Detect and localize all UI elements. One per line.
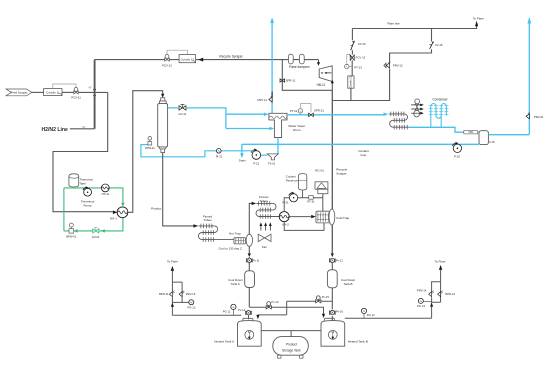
control valve Pv-13 — [266, 300, 279, 309]
wire recycle from dampers to Coriolis 12 — [196, 59, 319, 61]
svg-text:PCV-11: PCV-11 — [71, 95, 81, 99]
flow arrow into drum leg — [270, 127, 275, 131]
wire manifold L2 with Pv-13 — [249, 307, 323, 314]
svg-text:RT-31: RT-31 — [307, 200, 315, 204]
relief valve PRV-11 — [271, 92, 273, 103]
svg-text:P-22: P-22 — [454, 154, 460, 158]
vessel Water Vapor Drum — [269, 113, 305, 137]
wire hot trap riser to finned tubes upper — [249, 203, 251, 234]
svg-text:Feed Syngas: Feed Syngas — [11, 91, 28, 95]
relief valve PRV-12 — [384, 61, 403, 68]
flow arrow into upper finned tubes — [252, 202, 257, 205]
svg-text:Hot Trap: Hot Trap — [229, 231, 241, 235]
wire drum boot condensate — [277, 138, 279, 154]
wire HB-11 suction from recycle riser — [331, 82, 333, 91]
svg-text:Heated Tank A: Heated Tank A — [214, 340, 235, 344]
flow arrow into heated tank A neck — [256, 315, 259, 319]
svg-text:PRV-12: PRV-12 — [393, 64, 403, 68]
relief valve BPR-11 — [159, 291, 175, 297]
wire main riser x94.6 recycle down to H2/N2 — [94, 60, 96, 129]
flow meter Coriolis 13 — [348, 75, 354, 88]
flow arrow into cold trap — [311, 215, 316, 218]
svg-text:PG 14: PG 14 — [417, 304, 425, 308]
svg-text:Flare line: Flare line — [387, 22, 400, 26]
wire GV-11 to drum branches — [186, 108, 226, 129]
flow arrow into finned tubes — [193, 224, 198, 227]
svg-text:Tubes: Tubes — [260, 199, 269, 203]
svg-text:CV-15: CV-15 — [358, 42, 366, 46]
wire manifold L3 to heated tank A — [258, 314, 287, 316]
node Feed Syngas inlet banner — [6, 89, 32, 96]
wire Coriolis 11 to PCV-11 — [62, 91, 74, 93]
wire right flare riser — [432, 270, 441, 318]
svg-text:PRV 11: PRV 11 — [257, 98, 267, 102]
wire feed descent to therminol mixer loop — [53, 92, 113, 211]
vent riser right — [528, 23, 530, 135]
compressor RC-01 — [315, 182, 328, 194]
ball valve Pv-16 — [329, 310, 343, 315]
svg-text:To Flare: To Flare — [167, 260, 178, 264]
pulse damper capsule 1 — [288, 54, 293, 64]
wire coolant return loop — [242, 143, 479, 145]
wire Pv-12 to cool down tank B — [331, 263, 333, 270]
svg-text:Fan: Fan — [262, 245, 267, 249]
compressor HB-11 — [317, 66, 333, 87]
wire right flare line from tank B — [345, 317, 432, 319]
svg-text:HB-11: HB-11 — [317, 83, 326, 87]
svg-text:Pv-14: Pv-14 — [238, 308, 246, 312]
valve GV-01 — [92, 228, 100, 240]
wire refrigeration return loop — [284, 222, 324, 231]
pump P-21 — [251, 148, 260, 165]
check valve lower at feed junction — [93, 95, 96, 98]
svg-text:Tank: Tank — [79, 181, 86, 185]
svg-text:loop: loop — [361, 153, 367, 157]
wire PCV-11 to junction — [78, 91, 108, 93]
flow arrow bottom return mid — [101, 229, 105, 232]
flow meter Coriolis 11 — [44, 89, 62, 96]
svg-text:P-31: P-31 — [282, 200, 288, 204]
svg-text:Coriolis 12: Coriolis 12 — [181, 57, 195, 61]
wire pump to RT-31 to RC-01 drop — [298, 197, 323, 199]
pump P-22 — [452, 142, 461, 159]
flow arrow into drum upper — [264, 113, 269, 117]
svg-text:Cool to 130 deg C: Cool to 130 deg C — [218, 246, 243, 250]
flow arrow into Coriolis 12 — [198, 58, 203, 62]
pump Therminol Pump — [81, 186, 95, 207]
wire discharge header to flare/PRV — [332, 69, 389, 101]
flow arrow into HB-11 top — [317, 62, 320, 66]
wire product line from column — [163, 153, 194, 226]
wire tank A outlet to manifold — [248, 288, 250, 308]
svg-text:VFD: VFD — [468, 130, 473, 134]
svg-text:RC-01: RC-01 — [315, 169, 324, 173]
relief valve PRV-14 — [417, 288, 434, 296]
svg-text:Product: Product — [151, 206, 161, 210]
vent arrow right top — [527, 17, 531, 24]
flare arrow left — [171, 266, 174, 271]
wire manifold L1 with Pv-15 — [287, 300, 333, 302]
neck heated tank B — [324, 318, 335, 321]
wire recycle syngas main riser — [331, 90, 333, 253]
check valve CV-16 — [430, 41, 443, 49]
svg-text:To Flare: To Flare — [473, 17, 484, 21]
valve GV-11 — [178, 104, 186, 116]
ball valve Pv-14 — [238, 308, 251, 315]
tank Therminol Tank — [69, 174, 93, 187]
vessel V-15 knock-out pot — [479, 131, 495, 145]
flow meter Coriolis 12 — [179, 55, 196, 63]
wire HX-2 to cold trap — [289, 216, 311, 218]
svg-text:PCV-12: PCV-12 — [162, 63, 172, 67]
condenser coil — [429, 104, 449, 128]
neck heated tank A — [243, 318, 254, 321]
wire manifold vertical V1 — [286, 301, 288, 315]
svg-text:Heated Tank B: Heated Tank B — [348, 340, 368, 344]
svg-text:Pv-12: Pv-12 — [336, 259, 344, 263]
trap vessel Hot Trap — [234, 234, 253, 246]
wire hot trap to cool down tank A — [248, 246, 250, 270]
svg-text:PT-13: PT-13 — [354, 65, 362, 69]
svg-text:HX-11: HX-11 — [102, 192, 110, 196]
svg-text:GV-11: GV-11 — [178, 112, 186, 116]
svg-text:¼”: ¼” — [89, 85, 92, 89]
control valve PCV-11 — [71, 88, 81, 100]
svg-text:Pulse dampers: Pulse dampers — [289, 65, 310, 69]
wire flare line header — [352, 26, 476, 29]
wire reservoir stem — [302, 190, 304, 198]
flare arrow right — [439, 265, 442, 270]
strainer TS-01 — [267, 154, 278, 166]
valve SPR-11 — [280, 79, 296, 83]
gauge PI-21 — [216, 149, 223, 159]
svg-text:To Flare: To Flare — [434, 260, 445, 264]
finned tube coil product cooler — [198, 224, 234, 242]
flow arrow into HB-11 bottom — [331, 80, 334, 83]
flow arrow into MX-1 left — [113, 211, 117, 215]
heat exchanger HX-11 — [101, 184, 109, 196]
flow arrow into column top — [161, 94, 164, 98]
svg-text:BPR-12: BPR-12 — [445, 292, 455, 296]
svg-text:Pv-13: Pv-13 — [271, 300, 279, 304]
wire left flare line to tank A shoulder — [172, 314, 241, 316]
ball valve Pv-12 — [329, 258, 343, 262]
wire therminol supply — [64, 188, 123, 203]
svg-text:Cold Trap: Cold Trap — [336, 216, 350, 220]
gauge PT-13 — [345, 64, 363, 69]
flow arrow bottom return left — [73, 229, 77, 232]
svg-text:BPW-01: BPW-01 — [66, 235, 77, 239]
wire recycle syngas line to feed riser — [95, 59, 165, 61]
flow arrow into Pv-11 — [248, 253, 251, 257]
svg-text:PG 12: PG 12 — [367, 313, 375, 317]
svg-text:Product: Product — [286, 343, 297, 347]
flow arrow into Pv-12 — [331, 253, 334, 257]
svg-text:Coriolis 11: Coriolis 11 — [46, 90, 60, 94]
wire heated tanks connection — [261, 330, 321, 332]
wire steam upper branch into drum — [226, 113, 264, 115]
flow arrow To Flare top — [475, 21, 478, 26]
reactor column — [158, 98, 168, 153]
svg-text:Tank B: Tank B — [344, 282, 353, 286]
flow arrow into heated tank B neck — [322, 314, 325, 318]
finned tube coil condenser side — [389, 112, 408, 130]
svg-text:SPR-11: SPR-11 — [286, 79, 296, 83]
wire Coriolis 13 to discharge header — [350, 88, 352, 100]
svg-text:PRV-21: PRV-21 — [534, 115, 544, 119]
vent arrow top — [270, 17, 274, 23]
wire PCV-12 to Coriolis 12 — [169, 59, 179, 61]
wire drum overhead to condenser — [287, 114, 384, 116]
wire therminol left downcomer — [63, 188, 65, 231]
svg-text:PG 11: PG 11 — [223, 309, 231, 313]
svg-text:FCV 13: FCV 13 — [356, 55, 366, 59]
svg-text:DPW-21: DPW-21 — [145, 146, 155, 150]
wire FCV-13 to Coriolis 13 — [351, 60, 353, 76]
flow arrow up in left flare riser — [171, 303, 174, 307]
relief valve PRV-21 — [526, 112, 544, 119]
finned tube coil recycle cooler — [256, 201, 279, 219]
wire CV-15 to FCV-13 — [351, 50, 353, 54]
wire CV-16 riser to flare line — [431, 29, 433, 42]
svg-text:P-21: P-21 — [253, 162, 259, 166]
vessel Cool Down Tank A — [228, 271, 254, 288]
control valve FCV-13 — [349, 54, 365, 60]
svg-text:TS-01: TS-01 — [268, 162, 276, 166]
svg-text:H2/N2 Line: H2/N2 Line — [42, 127, 68, 133]
tank Product Storage Tank — [273, 337, 309, 359]
drain branch — [241, 144, 243, 153]
wire condensate to knock-out pot — [408, 127, 479, 132]
svg-text:MX-1: MX-1 — [110, 216, 117, 220]
instrument box VFD — [464, 130, 478, 134]
vent riser PRV-11 — [271, 22, 273, 113]
wire refrigeration supply — [284, 198, 289, 212]
valve SPR-21 — [309, 108, 325, 116]
wire purge branch down from flare line — [351, 29, 353, 41]
tank Heated Tank A — [214, 321, 261, 347]
svg-text:Condenser: Condenser — [432, 98, 447, 102]
svg-text:Coriolis 13: Coriolis 13 — [349, 75, 353, 88]
mixer heat exchanger MX-1 — [110, 207, 128, 220]
trap vessel Cold Trap — [316, 209, 350, 225]
wire H2/N2 line — [70, 128, 95, 130]
signal loop PT-21 to SPR-21 — [300, 104, 311, 113]
control valve PCV-12 — [162, 55, 172, 68]
wire steam lower branch into drum leg — [226, 128, 270, 130]
wire SPR-11 bypass branch — [282, 60, 332, 91]
wire condensate DPW-21 to PI-21 to pump — [141, 145, 252, 157]
svg-text:PI-21: PI-21 — [216, 155, 223, 159]
control valve Pv-15 — [316, 295, 330, 303]
wire therminol bottom return — [64, 218, 123, 231]
wire tank stem — [73, 186, 75, 189]
signal loop PCV-12 to Coriolis 12 — [167, 50, 187, 54]
fan condenser blower — [411, 99, 424, 117]
wire RC-01 to cold trap — [322, 194, 324, 212]
svg-text:V-15: V-15 — [489, 140, 495, 144]
svg-text:Reservoir: Reservoir — [286, 179, 298, 183]
svg-text:PT-21: PT-21 — [290, 109, 298, 113]
svg-text:Drain: Drain — [239, 158, 246, 162]
svg-text:GV-01: GV-01 — [92, 235, 100, 239]
gauge PG-13 — [187, 300, 195, 310]
svg-text:Pv-16: Pv-16 — [336, 310, 344, 314]
wire tank B outlet through manifold to heated tank B — [331, 288, 333, 321]
svg-text:Pv-11: Pv-11 — [253, 259, 260, 263]
relief valve BPR-12 — [438, 291, 456, 297]
svg-text:SPR-21: SPR-21 — [314, 108, 324, 112]
flow arrow into condenser tubes — [384, 112, 389, 116]
svg-text:PG-13: PG-13 — [187, 305, 195, 309]
wire strainer to pump P-21 — [261, 154, 267, 156]
svg-text:HX-2: HX-2 — [282, 222, 289, 226]
check valve CV-15 — [351, 41, 367, 51]
pulse damper capsule 2 — [299, 54, 304, 64]
wire drop to product storage tank — [290, 331, 292, 337]
relief valve PRV-13 — [179, 291, 196, 297]
tank Heated Tank B — [321, 321, 368, 347]
wire pot to vent riser — [488, 134, 529, 136]
wire damper line corner down to HB-11 inlet — [318, 60, 320, 63]
ball valve Pv-11 — [246, 258, 260, 262]
meter RT-31 — [307, 196, 315, 204]
heat exchanger HX-2 — [279, 212, 289, 227]
svg-text:BPR-11: BPR-11 — [159, 292, 169, 296]
fan under finned tubes — [258, 222, 272, 249]
wire PRV-12 to flare header — [390, 49, 432, 62]
gauge PG-11 — [223, 304, 236, 315]
svg-text:Tank A: Tank A — [231, 282, 240, 286]
svg-text:PRV-13: PRV-13 — [186, 292, 196, 296]
svg-text:Recycle Syngas: Recycle Syngas — [219, 54, 243, 58]
green arrow into MX-1 — [121, 203, 125, 207]
valve BPW-01 — [66, 223, 77, 239]
tank Coolant Reservoir — [286, 174, 307, 190]
pump P-31 — [282, 192, 297, 205]
signal loop FCV-13 to PT-13 — [347, 54, 350, 64]
flow arrow up in right flare riser — [430, 303, 433, 307]
wire steam line column to GV-11 — [168, 107, 179, 109]
wire left flare riser — [172, 271, 188, 315]
svg-text:Storage Tank: Storage Tank — [282, 348, 301, 352]
svg-text:PRV-14: PRV-14 — [417, 288, 427, 292]
signal loop Coriolis 11 to PCV-11 — [53, 84, 76, 89]
svg-text:Pv-15: Pv-15 — [322, 295, 330, 299]
wire Pv-14 into tank A neck — [248, 315, 250, 319]
check valve upper at feed junction — [93, 89, 96, 92]
gauge PT-21 — [290, 109, 303, 115]
svg-text:CV-16: CV-16 — [435, 43, 443, 47]
gauge PG-12 — [361, 308, 375, 318]
wire PT-13 stub — [349, 66, 352, 68]
gauge PG-14 — [417, 298, 431, 308]
wire MX-1 up to column feed — [128, 91, 163, 213]
vessel Cool Down Tank B — [327, 270, 355, 288]
gauge DPW-21 — [145, 137, 155, 150]
svg-text:Pump: Pump — [84, 204, 92, 208]
svg-text:Tubes: Tubes — [203, 218, 212, 222]
wire feed to Coriolis 11 — [32, 91, 44, 93]
svg-text:Syngas: Syngas — [336, 171, 347, 175]
svg-text:Drum: Drum — [293, 128, 301, 132]
